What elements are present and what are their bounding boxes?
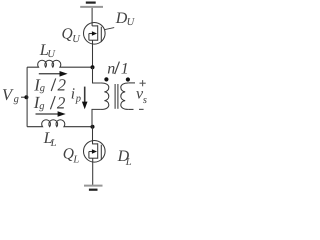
transformer primary dot [104,77,108,81]
svg-text:p: p [75,94,81,105]
label v_s [136,86,147,106]
label − [139,108,144,110]
svg-text:L: L [50,138,57,149]
wire node A down to transformer primary [93,67,101,83]
wire secondary top terminal [129,82,135,84]
label n/1 [107,60,129,77]
wire top ground to Q_U drain [91,8,93,26]
svg-text:i: i [71,85,75,102]
current arrow I_g/2 (bottom) [36,111,66,117]
label D_L [117,148,132,168]
label I_g/2 (bottom) [33,93,66,113]
transistor Q_U [84,23,106,45]
svg-text:U: U [72,34,81,45]
label L_U [39,40,57,60]
svg-text:U: U [47,49,56,60]
current arrow i_p [82,87,88,110]
label Q_U [62,25,82,45]
svg-text:g: g [14,94,19,105]
transformer core [115,84,118,109]
node A junction dot [91,65,95,69]
svg-text:L: L [125,157,132,168]
svg-text:g: g [39,101,44,112]
svg-text:1: 1 [121,60,129,77]
label Q_L [63,146,80,166]
svg-text:U: U [127,17,136,28]
node V_g junction dot [24,95,28,99]
wire Q_U source down to node A [92,40,94,67]
wire V_g to trunk [21,96,27,98]
current arrow I_g/2 (top) [39,71,68,77]
svg-text:n: n [107,60,115,77]
inductor L_L [27,120,92,127]
svg-text:s: s [143,95,147,106]
transformer secondary winding [121,83,129,109]
label i_p [71,85,81,104]
wire Q_L source down to ground [92,158,94,185]
label V_g [2,85,19,105]
svg-text:L: L [72,154,79,165]
label + [140,80,146,86]
transistor Q_L [84,141,106,163]
transformer primary winding [101,83,109,109]
leader line to D_U [105,28,114,30]
svg-text:Q: Q [63,146,74,163]
wire transformer primary bottom to node B [92,109,101,126]
svg-text:V: V [2,85,14,104]
svg-text:g: g [40,83,45,94]
label I_g/2 (top) [33,75,66,94]
label D_U [115,10,136,28]
transformer secondary dot [126,77,130,81]
inductor L_U [27,60,92,67]
wire node B down to Q_L drain [92,127,94,144]
ground (bottom) [84,186,103,190]
wire secondary bottom terminal [129,108,134,110]
wire left trunk [26,67,28,127]
svg-text:Q: Q [62,25,73,42]
svg-text:2: 2 [57,94,66,113]
label L_L [43,128,57,149]
svg-text:2: 2 [58,76,67,95]
ground (top) [80,3,103,7]
node B junction dot [91,125,95,129]
